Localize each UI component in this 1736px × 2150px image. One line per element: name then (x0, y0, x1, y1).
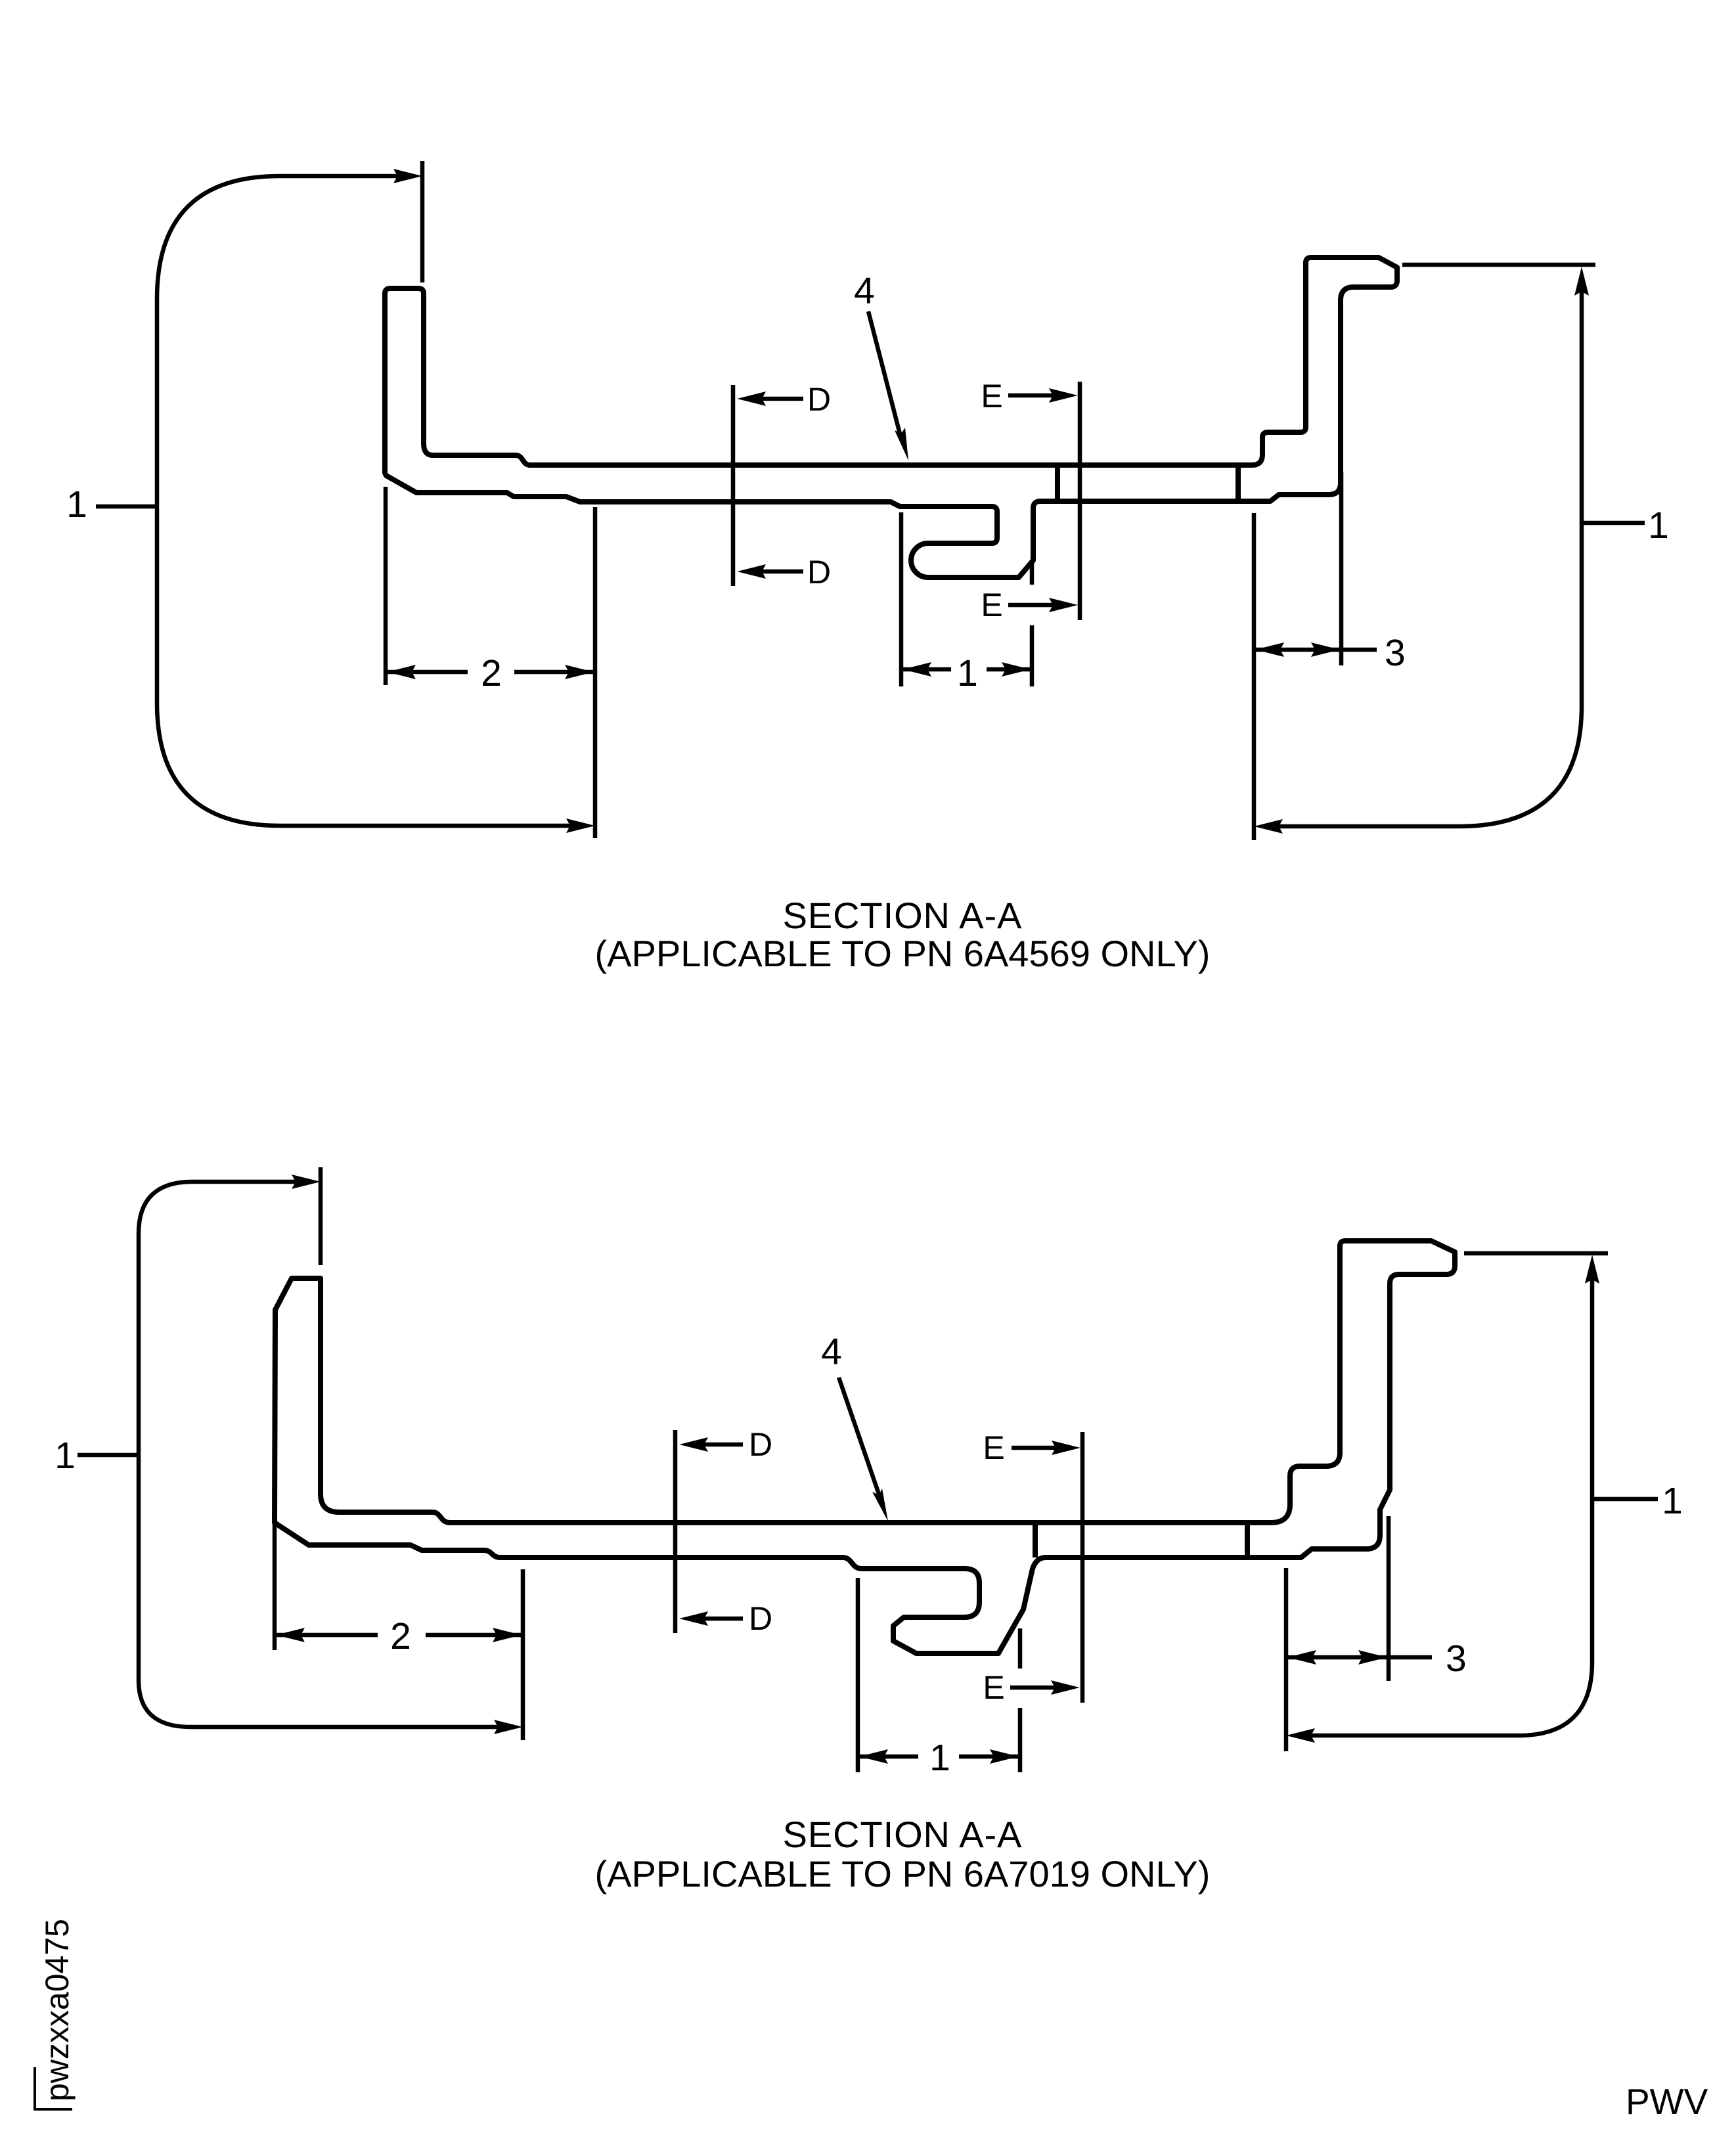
section line D-D (top diagram) (731, 385, 736, 586)
dimension 3 (bottom diagram) (1286, 1516, 1467, 1751)
svg-text:2: 2 (390, 1615, 411, 1657)
dimension 3 (top diagram) (1254, 472, 1406, 840)
section line D-D (bottom diagram) (673, 1430, 678, 1633)
svg-text:pwzxxa0475: pwzxxa0475 (39, 1919, 76, 2101)
section line E-E (top diagram) (1078, 382, 1082, 620)
svg-text:E: E (983, 1429, 1004, 1466)
left bracket arrows (top diagram, callout 1) (157, 169, 595, 833)
arrow D bottom (top diagram) (737, 554, 831, 591)
svg-text:D: D (749, 1600, 772, 1637)
svg-text:4: 4 (854, 270, 875, 312)
arrow D bottom (bottom diagram) (679, 1600, 772, 1637)
svg-text:E: E (981, 587, 1002, 623)
dimension 2 (top diagram) (386, 487, 595, 838)
butt joint line (top diagram, right of hook) (1235, 465, 1241, 501)
section line E-E (bottom diagram) (1080, 1432, 1085, 1703)
svg-text:1: 1 (1648, 504, 1669, 547)
leader and label 4 (bottom diagram) (821, 1331, 888, 1521)
arrow E top (bottom diagram) (983, 1429, 1080, 1466)
svg-text:E: E (981, 378, 1002, 414)
dimension 1 (top diagram middle) (901, 512, 1032, 694)
leader and label 1 (bottom diagram right) (1592, 1480, 1683, 1522)
butt joint line (bottom diagram, right of hook) (1245, 1524, 1250, 1559)
extension line above left flange (bottom diagram) (319, 1167, 323, 1265)
arrow D top (bottom diagram) (679, 1426, 772, 1463)
extension line above left flange (top diagram) (420, 161, 425, 282)
extension line top right (bottom diagram) (1464, 1251, 1608, 1256)
section profile PN 6A7019 (275, 1241, 1455, 1653)
arrow E top (top diagram) (981, 378, 1078, 414)
svg-text:(APPLICABLE TO PN 6A7019 ONLY): (APPLICABLE TO PN 6A7019 ONLY) (595, 1853, 1211, 1894)
leader and label 1 (bottom diagram left) (55, 1435, 139, 1477)
arrow E bottom (bottom diagram) (983, 1669, 1080, 1706)
svg-text:3: 3 (1446, 1638, 1467, 1680)
svg-text:SECTION A-A: SECTION A-A (783, 895, 1023, 936)
svg-text:SECTION A-A: SECTION A-A (783, 1814, 1023, 1855)
butt joint line (top diagram, left of hook) (1055, 465, 1060, 501)
leader and label 4 (top diagram) (854, 270, 908, 460)
svg-text:1: 1 (957, 652, 978, 694)
svg-text:1: 1 (66, 483, 87, 526)
svg-text:1: 1 (1662, 1480, 1683, 1522)
leader and label 1 (top diagram left) (66, 483, 157, 526)
leader and label 1 (top diagram right) (1582, 504, 1669, 547)
butt joint line (bottom diagram, left of hook) (1033, 1523, 1038, 1557)
arrow D top (top diagram) (737, 381, 831, 418)
svg-text:4: 4 (821, 1331, 842, 1373)
svg-text:3: 3 (1385, 632, 1406, 674)
right bracket arrows (bottom diagram, callout 1) (1286, 1255, 1599, 1743)
svg-text:E: E (983, 1669, 1004, 1706)
section profile PN 6A4569 (385, 258, 1397, 577)
right bracket arrows (top diagram, callout 1) (1254, 267, 1589, 834)
dimension 1 (bottom diagram middle) (858, 1578, 1020, 1779)
dimension 2 (bottom diagram) (275, 1524, 523, 1740)
svg-text:1: 1 (55, 1435, 76, 1477)
svg-text:D: D (807, 381, 831, 418)
svg-text:D: D (807, 554, 831, 591)
svg-text:(APPLICABLE TO PN 6A4569 ONLY): (APPLICABLE TO PN 6A4569 ONLY) (595, 933, 1211, 974)
corner mark (35, 2067, 72, 2109)
svg-text:1: 1 (929, 1737, 950, 1779)
svg-text:2: 2 (481, 652, 502, 694)
extension line top right (top diagram) (1402, 263, 1595, 267)
left bracket arrows (bottom diagram, callout 1) (139, 1175, 523, 1734)
svg-text:D: D (749, 1426, 772, 1463)
svg-text:PWV: PWV (1626, 2081, 1708, 2122)
arrow E bottom (top diagram) (981, 587, 1078, 623)
